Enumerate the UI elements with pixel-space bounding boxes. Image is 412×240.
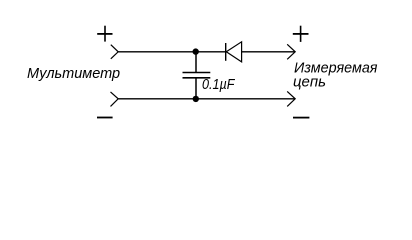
wire top-left segment (118, 51, 226, 53)
capacitor C1 plates (183, 73, 211, 78)
wire top-right segment (242, 51, 296, 53)
connector arrow bottom-right (287, 91, 295, 106)
wire capacitor lower stub (195, 78, 197, 99)
svg-text:цепь: цепь (293, 74, 326, 90)
connector arrow bottom-left (111, 92, 119, 107)
plus terminal label (right) (293, 26, 309, 42)
diode D1 triangle (226, 42, 241, 62)
diode D1 cathode bar (225, 43, 227, 61)
connector arrow top-right (287, 44, 295, 59)
svg-text:0.1µF: 0.1µF (202, 77, 235, 93)
minus terminal label (left) (97, 117, 113, 119)
connector arrow top-left (111, 45, 118, 59)
node junction top (193, 48, 199, 54)
svg-text:Мультиметр: Мультиметр (27, 66, 120, 82)
node junction bottom (193, 96, 199, 102)
plus terminal label (left) (97, 26, 112, 42)
wire bottom (118, 98, 295, 100)
wire capacitor upper stub (195, 52, 197, 73)
minus terminal label (right) (293, 117, 309, 119)
